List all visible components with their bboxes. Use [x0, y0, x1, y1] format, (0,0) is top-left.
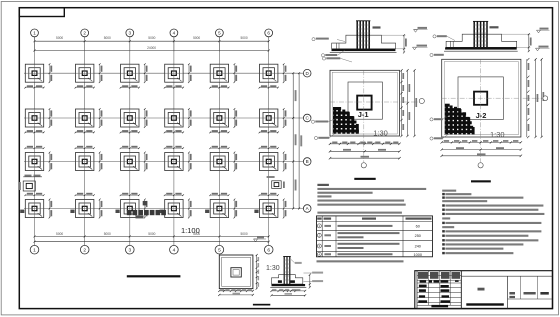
title block outline — [415, 271, 553, 309]
table row 1 — [317, 224, 321, 228]
J-1 section right dim line — [403, 35, 405, 52]
right note line 1 — [442, 190, 456, 192]
extension line — [34, 36, 36, 51]
J-1 left leader mid — [311, 120, 314, 123]
svg-text:6: 6 — [267, 248, 270, 254]
right note line 11 — [442, 230, 445, 232]
right dimension line (bay dims 4500) — [292, 73, 294, 208]
svg-text:6: 6 — [267, 31, 270, 36]
svg-text:3: 3 — [128, 248, 131, 254]
small plan detail right dims — [256, 255, 258, 289]
grid bubble 1 top — [31, 29, 39, 37]
note line 2 — [317, 192, 372, 194]
note line below table — [317, 260, 404, 262]
signature redaction block — [419, 295, 425, 297]
notes heading — [317, 184, 329, 186]
footing J at grid 4/B — [165, 152, 192, 172]
svg-text:5: 5 — [218, 31, 221, 36]
J-1 plan bottom dim lines — [330, 143, 400, 145]
redacted bar under plan — [127, 275, 181, 277]
table row 4 — [317, 252, 321, 256]
grid line C (horizontal axis) — [24, 117, 303, 119]
plan title (CJK) 基础平面布置图 — [127, 210, 132, 215]
title block middle: project name text — [478, 288, 485, 291]
J-1 section base slab (blinding) — [332, 49, 396, 51]
J-2 plan column — [474, 92, 487, 105]
J-2 plan axis bubble bottom — [478, 163, 483, 168]
small plan detail column — [231, 268, 241, 277]
footing designation label row A col 6 — [254, 210, 258, 213]
right note line 6 — [442, 209, 445, 211]
title block right texts — [509, 292, 515, 295]
title block middle: drawing-title redaction — [466, 303, 504, 305]
J-2 plan axis bubble right — [543, 96, 548, 101]
footing J at grid 2/A — [76, 199, 103, 219]
footing designation label row A col 4 — [160, 210, 164, 213]
section detail bar sections — [278, 280, 282, 283]
J-1 section left leader bottom — [338, 50, 345, 55]
J-1 section rebar label 4C14 — [373, 26, 381, 28]
J-2 plan middle square — [458, 77, 503, 120]
table row line — [317, 229, 433, 231]
dim label total (rotated) — [300, 135, 302, 146]
svg-text:1000: 1000 — [414, 253, 422, 257]
J-2 elevation mark top — [537, 30, 541, 33]
material table frame — [317, 216, 433, 257]
svg-text:1: 1 — [33, 248, 36, 254]
svg-text:2: 2 — [83, 248, 86, 254]
small footing J-3 rotated label — [19, 182, 21, 190]
grid bubble 6 top — [265, 29, 273, 37]
grid bubble 5 top — [216, 29, 224, 37]
svg-text:1:100: 1:100 — [181, 226, 200, 235]
signature redaction block — [419, 289, 426, 292]
footing J at grid 6/B — [260, 152, 287, 172]
small plan detail outer square — [219, 255, 253, 289]
svg-text:1: 1 — [33, 31, 36, 36]
section detail footing outline — [272, 275, 303, 284]
J-1 section left leader top — [337, 40, 345, 42]
footing J at grid 1/A — [25, 199, 52, 219]
J-2 plan center lines — [442, 97, 545, 99]
signature redaction block — [419, 285, 427, 288]
svg-text:5000: 5000 — [241, 232, 248, 236]
footing J at grid 1/B — [25, 152, 52, 172]
J-1 left leader bottom — [314, 136, 317, 139]
note line 3 — [317, 195, 331, 197]
signature redaction block — [431, 305, 448, 307]
title block right section dividers — [507, 276, 509, 308]
grid bubble 5 bottom — [215, 245, 224, 254]
grid line 6 (vertical axis) — [268, 36, 270, 245]
right note line 12 — [442, 235, 445, 237]
title block top strip divider — [461, 275, 552, 277]
dim label 4500 (rotated) — [295, 180, 297, 191]
J-1 plan rebar hatch corner — [333, 130, 359, 133]
J-1 section dowel lines left — [336, 43, 338, 49]
right note line 8 — [442, 217, 450, 219]
grid bubble C right — [303, 114, 311, 122]
svg-text:J-2: J-2 — [476, 111, 487, 120]
outdoor level mark near bubble 6 — [254, 239, 258, 242]
grid line 4 (vertical axis) — [173, 36, 175, 245]
footing J at grid 2/D — [76, 63, 103, 83]
small footing J-3 on line 6 — [272, 181, 282, 189]
J-1 plan center lines — [330, 101, 418, 103]
svg-text:1:30: 1:30 — [373, 129, 388, 138]
signature redaction block — [441, 285, 449, 287]
svg-text:1:30: 1:30 — [490, 130, 505, 139]
grid bubble 3 top — [126, 29, 134, 37]
signature redaction block — [434, 280, 440, 282]
footing J at grid 4/C — [165, 108, 192, 128]
section detail rebar label — [295, 262, 302, 264]
right note line 15 — [442, 247, 445, 249]
footing J at grid 5/D — [210, 63, 237, 83]
note line 5 — [317, 204, 405, 206]
grid line 1 (vertical axis) — [34, 36, 36, 245]
grid bubble 4 top — [170, 29, 178, 37]
right note line 16 — [442, 252, 445, 254]
footing J at grid 4/A — [165, 199, 192, 219]
note line above table — [317, 212, 402, 214]
J-2 plan bottom dim lines — [442, 141, 521, 143]
J-1 plan outer square — [330, 70, 400, 136]
section detail base slab — [272, 284, 306, 286]
J-2 section rebar label — [490, 26, 499, 28]
signature redaction block — [418, 300, 427, 302]
table row line — [317, 251, 433, 253]
table column line — [402, 216, 404, 257]
footing designation label row A col 2 — [70, 210, 74, 213]
grid bubble 3 bottom — [126, 245, 135, 254]
svg-text:5000: 5000 — [56, 36, 63, 40]
J-1 plan middle square — [348, 82, 382, 119]
J-2 elevation mark bottom — [536, 48, 540, 51]
svg-text:60: 60 — [416, 225, 420, 229]
title block middle divider — [460, 271, 462, 309]
J-1 elevation mark -1.500 — [413, 47, 417, 50]
J-1 plan right dim lines — [401, 70, 403, 136]
designation label below title — [136, 215, 144, 218]
grid line A (horizontal axis) — [24, 208, 303, 210]
svg-text:24000: 24000 — [147, 46, 156, 50]
J-2 plan right dim lines — [526, 59, 528, 137]
signature redaction block — [442, 295, 450, 297]
J-2 section column rebar — [473, 21, 475, 47]
svg-text:5000: 5000 — [104, 36, 111, 40]
grid bubble A right — [303, 205, 311, 213]
grid line B (horizontal axis) — [24, 161, 303, 163]
right note line 4 — [442, 200, 487, 202]
signature redaction block — [429, 280, 432, 282]
dim label 4500 (rotated) — [295, 90, 297, 101]
grid bubble 2 top — [81, 29, 89, 37]
footing designation label row A col 1 — [20, 210, 24, 213]
grid bubble 1 bottom — [30, 245, 39, 254]
J-2 left leader top — [430, 53, 433, 56]
svg-text:J-1: J-1 — [358, 110, 369, 119]
table column line — [335, 216, 337, 257]
svg-text:5000: 5000 — [148, 36, 155, 40]
section detail column rebar — [283, 256, 285, 284]
footing designation label row A col 3 — [116, 210, 120, 213]
J-2 left leader mid — [430, 118, 433, 121]
J-2 plan rebar hatch corner — [445, 130, 474, 133]
footing J at grid 2/C — [76, 108, 103, 128]
J-2 section base slab — [445, 47, 517, 49]
bottom dimension line (bay dims 5000) — [35, 235, 269, 237]
footing J at grid 3/C — [121, 108, 148, 128]
small plan detail bottom dims — [219, 290, 253, 292]
section detail bottom dims — [272, 290, 306, 292]
grid bubble 4 bottom — [170, 245, 179, 254]
grid bubble D right — [303, 69, 311, 77]
signature redaction block — [441, 280, 449, 282]
extension line — [218, 36, 220, 51]
top dimension line (total 24000) — [35, 50, 269, 52]
right note line 9 — [442, 222, 445, 224]
small stamp right of sig table — [455, 280, 459, 282]
footing J at grid 2/B — [76, 152, 103, 172]
grid bubble B right — [303, 158, 311, 166]
footing J at grid 1/D — [25, 63, 52, 83]
right note line 3 — [442, 196, 445, 198]
footing J at grid 5/A — [210, 199, 237, 219]
redacted bar under J-1 — [354, 178, 375, 180]
right note line 5 — [442, 204, 445, 206]
binding tab top-left — [19, 8, 64, 17]
J-1 plan axis bubble right — [419, 98, 424, 103]
footing J at grid 6/C — [260, 108, 287, 128]
J-1 section column rebar — [356, 21, 358, 49]
table row line — [317, 239, 433, 241]
svg-text:2: 2 — [83, 31, 86, 36]
signature redaction block — [441, 300, 451, 302]
J-2 left leader bottom — [430, 137, 433, 140]
small footing J-3 label — [267, 176, 275, 178]
note line 4 — [317, 200, 404, 202]
J-1 plan axis bubble bottom — [361, 163, 366, 168]
footing J at grid 3/A — [121, 199, 148, 219]
svg-text:5000: 5000 — [56, 232, 63, 236]
table header smudges — [317, 218, 321, 220]
svg-text:B: B — [306, 159, 309, 164]
footing designation label row A col 5 — [205, 210, 209, 213]
table column line — [321, 216, 323, 257]
footing J at grid 5/C — [210, 108, 237, 128]
table row 2 — [317, 233, 321, 237]
right total dimension line — [298, 73, 300, 208]
small footing J-3 dim line above — [23, 176, 42, 178]
J-1 section footing outline — [332, 35, 396, 49]
footing J at grid 1/C — [25, 108, 52, 128]
redacted bar under J-2 — [471, 180, 491, 182]
J-2 section stirrups — [473, 24, 487, 26]
J-1 left leader top — [322, 57, 325, 60]
J-2 plan right total dim line — [541, 59, 543, 137]
svg-text:5000: 5000 — [193, 36, 200, 40]
extension line — [129, 36, 131, 51]
svg-text:3: 3 — [129, 31, 132, 36]
signature redaction block — [441, 289, 450, 292]
svg-text:5000: 5000 — [241, 36, 248, 40]
section detail right dim — [309, 275, 311, 288]
extension line — [268, 36, 270, 51]
footing J at grid 4/D — [165, 63, 192, 83]
redacted bar bottom centre — [253, 304, 270, 306]
J-1 section stirrups — [356, 24, 370, 26]
svg-text:5000: 5000 — [104, 232, 111, 236]
svg-text:5000: 5000 — [148, 232, 155, 236]
right note line 13 — [442, 239, 445, 241]
svg-text:4: 4 — [173, 31, 176, 36]
footing J at grid 5/B — [210, 152, 237, 172]
J-2 section footing outline — [446, 34, 517, 47]
top dimension line (bay dims 5000) — [35, 40, 269, 42]
signature table header band — [418, 272, 428, 279]
svg-text:250: 250 — [415, 234, 421, 238]
designation label above title — [143, 201, 147, 205]
svg-text:4: 4 — [173, 248, 176, 254]
small footing J-3 on line 1 — [23, 181, 35, 191]
bottom total dimension line — [35, 241, 269, 243]
grid bubble 2 bottom — [80, 245, 89, 254]
J-2 plan outer square — [442, 59, 521, 137]
J-2 section dowel lines left — [450, 41, 452, 47]
extension line — [173, 36, 175, 51]
svg-text:240: 240 — [415, 245, 421, 249]
title block signature table — [417, 271, 461, 309]
J-1 plan column — [357, 96, 371, 110]
right note line 2 — [442, 193, 445, 195]
table row line — [317, 221, 433, 223]
section detail right leaders — [304, 272, 313, 274]
signature redaction block — [420, 280, 427, 282]
grid line 5 (vertical axis) — [218, 36, 220, 245]
dim label 4500 (rotated) — [295, 134, 297, 145]
footing J at grid 6/A — [260, 199, 287, 219]
table row 3 — [317, 244, 321, 248]
J-2 section left leader — [433, 35, 436, 38]
J-1 plan right total dim line — [414, 70, 416, 136]
grid line 3 (vertical axis) — [129, 36, 131, 245]
J-2 section right dim line — [528, 34, 530, 51]
extension line — [84, 36, 86, 51]
footing J at grid 3/D — [121, 63, 148, 83]
J-1 elevation mark -0.050 — [414, 30, 418, 33]
svg-text:5: 5 — [218, 248, 221, 254]
grid line 2 (vertical axis) — [84, 36, 86, 245]
grid bubble 6 bottom — [264, 245, 273, 254]
grid line D (horizontal axis) — [24, 72, 303, 74]
right note line 7 — [442, 213, 445, 215]
footing J at grid 3/B — [121, 152, 148, 172]
note line 1 — [317, 188, 426, 190]
right note line 10 — [442, 226, 454, 228]
footing J at grid 6/D — [260, 63, 287, 83]
svg-text:1:30: 1:30 — [266, 265, 280, 272]
right note line 14 — [442, 243, 445, 245]
